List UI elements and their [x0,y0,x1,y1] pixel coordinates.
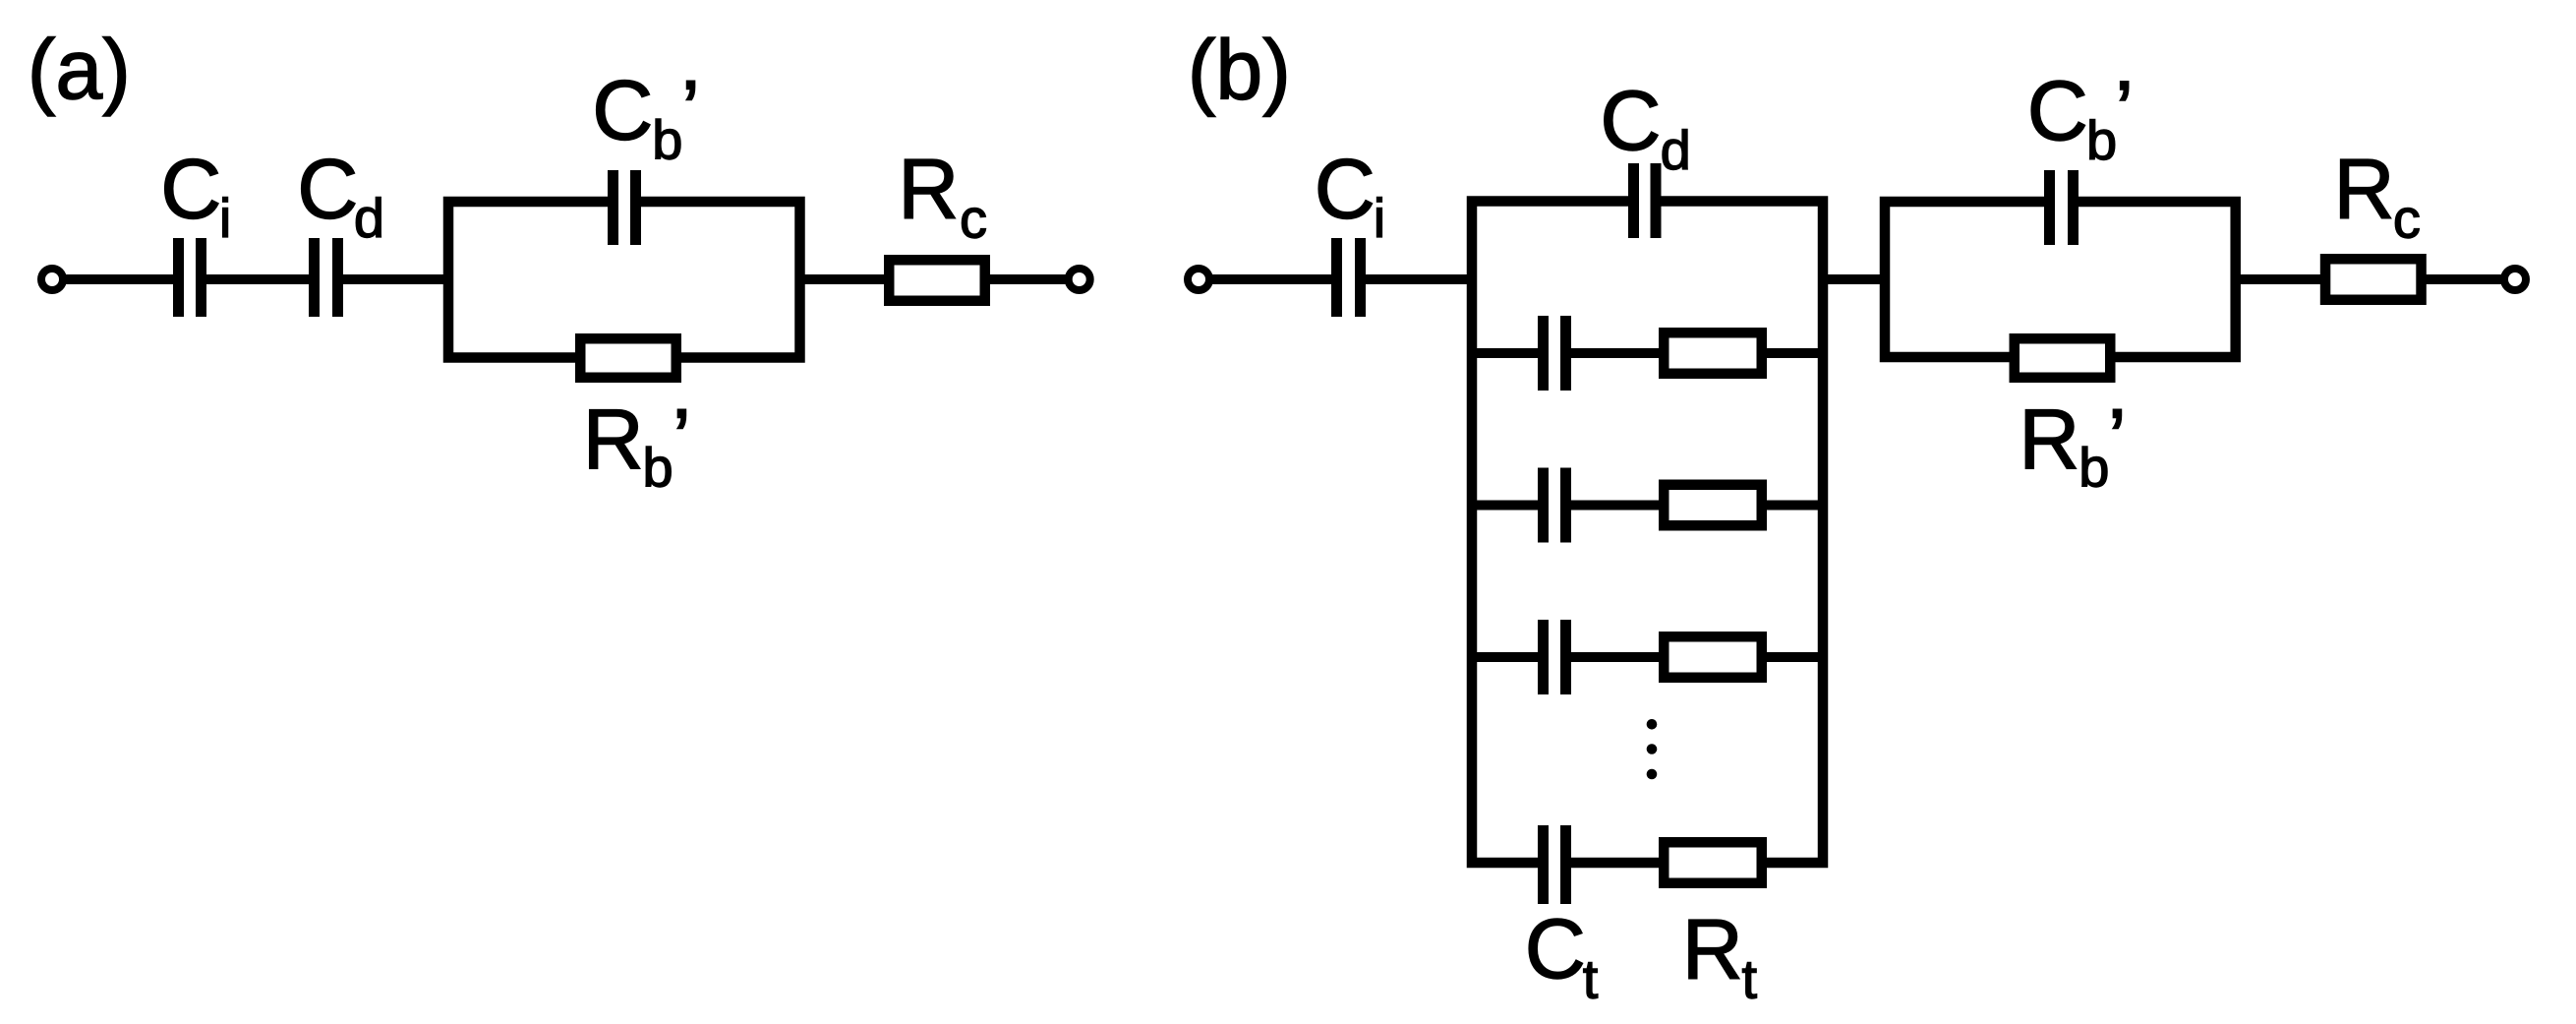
branch 3 capacitor plates [1538,468,1549,543]
wire terminal to Ci [63,274,179,284]
resistor Rb' (a) [580,338,676,378]
branch 4 capacitor plates [1538,620,1549,694]
terminal right (a) [1069,269,1090,290]
branch 4 resistor [1664,636,1762,678]
svg-text:R: R [1682,903,1743,997]
wire Ci to Cd [202,274,314,284]
svg-text:b: b [652,108,682,170]
bottom branch capacitor plates [1538,825,1549,904]
capacitor Cb' (b) white gap [2055,192,2068,211]
svg-text:’: ’ [673,392,691,487]
ladder outer rectangle (b) [1472,202,1823,864]
svg-text:R: R [898,143,959,237]
svg-text:i: i [219,187,231,249]
svg-text:d: d [1661,119,1691,181]
right parallel block rectangle (b) [1885,202,2236,357]
svg-text:(a): (a) [28,23,131,117]
svg-text:C: C [160,143,221,237]
svg-text:C: C [1600,74,1661,168]
ladder branch wire 3 [1472,501,1823,511]
svg-text:R: R [2334,143,2395,237]
resistor Rc (b) [2325,259,2422,300]
capacitor Cd (b) plates [1628,163,1639,238]
svg-text:C: C [592,64,653,158]
wire Cd to block [337,274,448,284]
parallel block rectangle (a) [448,202,800,358]
wire ladder to right block (b) [1823,274,1885,284]
svg-text:’: ’ [2115,64,2134,158]
svg-text:t: t [1742,948,1758,1010]
svg-text:b: b [2086,109,2117,171]
branch 3 capacitor white gap [1549,500,1560,512]
vertical dots [1647,719,1658,730]
bottom branch resistor [1664,842,1762,883]
svg-text:c: c [960,188,987,250]
svg-text:b: b [2078,437,2109,499]
terminal right (b) [2504,269,2526,290]
capacitor Cb' (a) plates [608,170,618,245]
wire Rc to terminal (b) [2422,274,2502,284]
resistor Rc (a) [889,260,985,301]
terminal left (b) [1188,269,1209,290]
wire Ci to ladder (b) [1361,274,1472,284]
ladder branch wire 4 [1472,652,1823,662]
svg-text:R: R [583,392,644,487]
resistor Rb' (b) [2015,338,2111,378]
wire terminal to Ci (b) [1209,274,1337,284]
svg-text:d: d [354,187,384,249]
svg-text:b: b [643,437,673,499]
branch 2 capacitor plates [1538,316,1549,391]
capacitor Cb' (b) plates [2044,170,2055,245]
wire block to Rc (b) [2236,274,2325,284]
capacitor Ci (a) plates [173,238,184,317]
svg-text:C: C [1525,902,1586,996]
branch 2 capacitor Ct white gap [1549,347,1560,359]
bottom branch capacitor white gap [1549,857,1560,869]
svg-text:C: C [297,143,358,237]
capacitor Cd (a) plates [309,238,320,317]
capacitor Cb' (a) white gap [618,192,630,211]
branch 4 capacitor white gap [1549,651,1560,663]
capacitor Ci (b) plates [1331,238,1342,317]
terminal left (a) [41,269,63,290]
svg-text:(b): (b) [1188,24,1291,118]
capacitor Cd (b) white gap [1639,191,1651,211]
branch 2 resistor [1664,332,1762,374]
branch 3 resistor [1664,485,1762,526]
svg-text:c: c [2393,188,2421,250]
ladder branch wire 2 [1472,348,1823,358]
svg-text:’: ’ [681,64,700,158]
svg-text:R: R [2019,392,2079,487]
svg-text:C: C [2027,64,2088,158]
wire block to Rc (a) [800,274,888,284]
svg-text:C: C [1315,143,1376,237]
wire Rc to terminal (a) [987,274,1066,284]
svg-text:i: i [1374,187,1385,249]
svg-text:t: t [1583,948,1599,1010]
svg-text:’: ’ [2108,392,2127,487]
